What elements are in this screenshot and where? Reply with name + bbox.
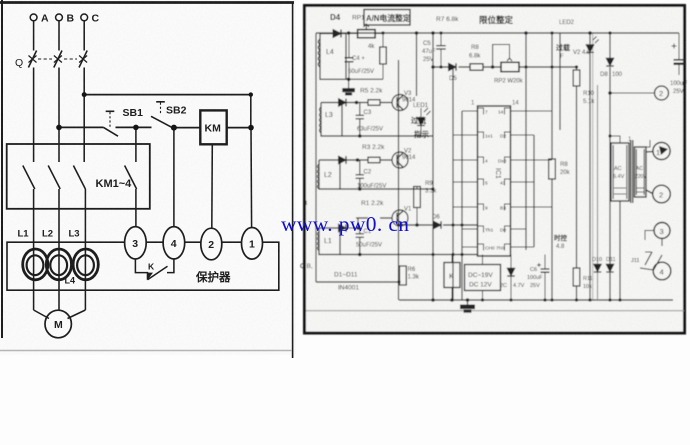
node feeder corner (249, 92, 253, 96)
pushbutton SB2 actuator (156, 101, 165, 103)
left diagram labels (15, 13, 255, 332)
wire L1 to motor (34, 310, 49, 319)
wire phase B below box to CT (58, 189, 60, 311)
wire v560 (559, 33, 561, 130)
switch Q link dashes (38, 58, 77, 60)
transformer T1 (610, 136, 653, 203)
terminal circle 2b (653, 185, 671, 203)
wire v620 transformer down (619, 201, 621, 300)
wire phase C to junction (83, 68, 85, 163)
capacitor C6 (537, 255, 550, 301)
switch Q cross B (54, 56, 62, 63)
wire phase A drop (33, 21, 35, 51)
transformer top taps (610, 136, 650, 147)
CT L2 outer (46, 249, 71, 280)
winding L2 (317, 160, 340, 189)
contactor coil KM box (200, 110, 226, 144)
secondary to circle1 (646, 151, 653, 154)
LED1 (417, 108, 430, 136)
secondary to circle2 (646, 190, 653, 194)
terminal ellipse 2 (201, 228, 222, 260)
switch K box (444, 255, 460, 301)
diode D10 (594, 264, 601, 272)
capacitor C1 (356, 228, 365, 255)
diode D8 (606, 58, 613, 66)
wire bus y225 (399, 224, 478, 226)
wire phase A to KM box (33, 68, 35, 163)
contactor KM1~4 box (7, 144, 150, 209)
primary winding (611, 143, 629, 201)
power box DC (465, 255, 501, 301)
wire SB2 node down to terminal 4 (173, 128, 175, 228)
potentiometer RP2 (493, 45, 519, 72)
wire row3 base y218 (356, 217, 393, 219)
pins right (511, 111, 517, 247)
resistor R9 (414, 187, 421, 226)
diode D11 (606, 264, 613, 272)
resistor R8 (470, 64, 483, 70)
wire v610 (609, 33, 611, 300)
KM contact blade C (73, 166, 85, 190)
winding L1 (317, 228, 340, 255)
diode D6 (434, 221, 442, 228)
node after SB1 (133, 125, 139, 131)
terminal A (30, 14, 37, 21)
wire v534 (533, 135, 535, 247)
diode D1 (339, 224, 347, 232)
watermark www.pw0.cn (281, 212, 409, 236)
resistor R10 (573, 70, 580, 86)
wire blade4 to terminal 3 (135, 189, 137, 227)
wire right feeder drop (250, 95, 252, 128)
resistor R12 (549, 159, 556, 179)
left diagram junction dots (56, 92, 254, 131)
diode D2 (339, 156, 347, 164)
scan border top (0, 1, 294, 4)
wire top bus (316, 32, 679, 34)
CT L3 outer (73, 249, 98, 280)
wire left bus (315, 33, 317, 282)
core (631, 140, 633, 203)
wire row3 tap (357, 218, 359, 228)
KM contact blade A (23, 166, 35, 190)
resistor R4 (380, 34, 387, 80)
terminal ellipse 4 (163, 227, 185, 259)
resistor R11 (573, 268, 580, 286)
wire v576 R10 column (576, 67, 578, 300)
resistor R6 (400, 266, 407, 285)
KM contact blade B (48, 166, 60, 190)
wire block4 top (340, 227, 360, 229)
top label box A/N (364, 10, 410, 26)
CT L1 outer (23, 249, 48, 280)
wire right drop to terminal 1 (250, 128, 253, 228)
switch K blade (148, 266, 168, 280)
switch Q cross A (29, 56, 37, 63)
wire SB2 to KM coil (174, 127, 200, 129)
wire phase C drop (83, 21, 85, 51)
wire row y67 (433, 66, 577, 68)
KM contact blade 4 (125, 166, 137, 190)
wire phase B drop (58, 21, 60, 51)
transistor V1 (392, 210, 408, 226)
wire bottom bus (399, 299, 673, 301)
node C feeder (82, 92, 87, 97)
wire node SB1 down to blade4 (135, 127, 137, 162)
wire v462 (461, 111, 463, 300)
node KM right (248, 125, 254, 131)
wire control row left (59, 126, 104, 128)
wire KM coil to right (227, 127, 251, 129)
wire block2 bottom y136 (342, 135, 433, 137)
wire transistor column (398, 60, 400, 300)
terminal circle 1 (653, 142, 670, 159)
potentiometer RP1 (349, 24, 384, 38)
wire row2 base y160 (347, 159, 393, 161)
terminal circle 4 (653, 262, 671, 280)
wire KM coil bottom to terminal 2 (211, 144, 214, 228)
switch Q blade A (28, 51, 36, 68)
pushbutton SB1 actuator (106, 110, 115, 112)
wire circle3 left (645, 231, 654, 241)
relay contact J1 (640, 239, 662, 270)
wire row1 base y102.5 (347, 102, 393, 104)
terminal ellipse 3 (125, 227, 147, 259)
zener VD (507, 255, 514, 301)
motor M circle (45, 310, 71, 338)
IC pin wires left (453, 111, 552, 247)
junction dots right (347, 31, 622, 302)
terminal circle 3 (654, 223, 670, 239)
switch K bracket (135, 259, 147, 280)
wire phase A below box to CT (33, 189, 35, 310)
CT L2 inner (50, 255, 67, 275)
resistor R5 (368, 100, 380, 106)
inner pin boxes right (505, 108, 511, 251)
ground main (461, 300, 475, 312)
capacitor C3 (356, 103, 365, 137)
ground (343, 79, 355, 95)
wire phase B to KM box (58, 68, 60, 163)
wire v597 gray (597, 85, 599, 300)
secondary winding (635, 147, 647, 197)
node B control tap (56, 125, 62, 131)
switch Q blade C (79, 51, 87, 68)
wire block3 bottom y189 (340, 188, 433, 190)
diode D3 (339, 99, 347, 107)
wire v433 (432, 33, 434, 300)
wire top feeder horizontal (84, 94, 251, 96)
scan border bottom faint (0, 350, 292, 352)
wire v416 (416, 33, 418, 96)
scan noise overlay (0, 0, 296, 355)
scan border left (1, 0, 3, 338)
wire block4 bottom y254 (340, 254, 478, 256)
terminal C (81, 14, 88, 21)
scan band gray vertical (592, 33, 594, 300)
capacitor C5 (436, 33, 445, 67)
scan tint (306, 7, 683, 332)
wire block4 left bottom (316, 281, 399, 283)
CT L1 inner (27, 255, 44, 275)
CT L3 inner (77, 255, 94, 275)
wire v453 (452, 67, 454, 300)
wire v526 (525, 33, 527, 250)
block1 bottom wire (346, 78, 383, 80)
winding L3 (319, 103, 342, 137)
switch Q cross C (79, 56, 87, 63)
transistor V2 (392, 152, 408, 168)
diode D5 (449, 63, 457, 70)
terminal ellipse 1 (242, 228, 263, 260)
wire phase C below box to CT (84, 189, 86, 310)
pushbutton SB1 blade (104, 127, 119, 136)
capacitor C7 (672, 33, 685, 75)
winding L4 (318, 34, 346, 80)
switch Q blade B (54, 51, 62, 68)
resistor R3 (368, 157, 380, 163)
capacitor C2 (356, 160, 365, 189)
scan line gray bottom (306, 310, 684, 312)
terminal circle 2a (655, 86, 669, 100)
wire v552 (551, 33, 553, 300)
IC U1 (472, 106, 517, 256)
wire v590 (589, 33, 591, 300)
LED2 (586, 37, 599, 53)
node after SB2 (171, 125, 177, 131)
terminal B (56, 14, 63, 21)
IC pin wires right (517, 111, 553, 247)
inner pin boxes left (478, 108, 484, 251)
protector box 保护器 (7, 242, 279, 290)
wire SB1 to node (116, 126, 152, 128)
scan border right (292, 2, 294, 358)
pushbutton SB2 blade (151, 116, 172, 127)
transistor V3 (392, 95, 408, 111)
right diagram labels (300, 13, 687, 292)
wire c2a link (610, 92, 655, 94)
diode D4 (333, 30, 341, 38)
capacitor C4 (345, 34, 354, 80)
wire L3 to motor (68, 310, 86, 319)
pins left (472, 111, 478, 247)
